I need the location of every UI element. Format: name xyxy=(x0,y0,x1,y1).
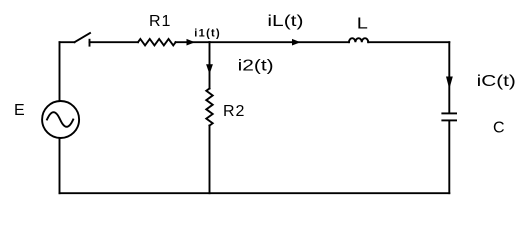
svg-text:R1: R1 xyxy=(149,13,171,30)
svg-text:L: L xyxy=(357,14,369,32)
svg-text:i2(t): i2(t) xyxy=(238,56,274,74)
svg-text:iC(t): iC(t) xyxy=(477,71,516,89)
svg-text:R2: R2 xyxy=(223,103,245,120)
svg-text:i1(t): i1(t) xyxy=(194,28,221,40)
svg-text:iL(t): iL(t) xyxy=(267,12,303,30)
svg-text:C: C xyxy=(493,120,506,137)
svg-text:E: E xyxy=(14,102,26,119)
